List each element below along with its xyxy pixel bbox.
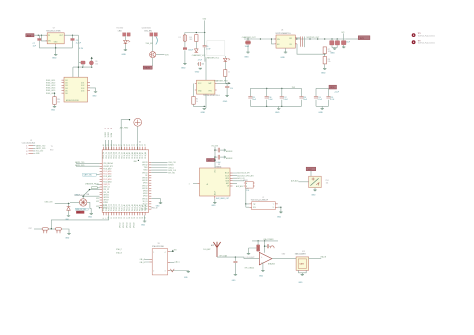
svg-text:SAW: SAW (299, 262, 304, 265)
wire right pin (217, 83, 228, 85)
svg-text:DO1: DO1 (81, 83, 84, 85)
svg-text:DI5: DI5 (65, 90, 68, 92)
svg-text:P1.01_D1: P1.01_D1 (106, 152, 108, 159)
svg-text:52: 52 (134, 144, 136, 146)
IC U4 NCP1529 (276, 30, 296, 48)
IC U8 codec body (200, 167, 231, 196)
fuse F1 (179, 35, 187, 42)
svg-text:P1.05_D5: P1.05_D5 (116, 204, 118, 211)
svg-text:GND: GND (51, 109, 56, 111)
svg-text:9: 9 (106, 218, 108, 219)
svg-text:GPIO2: GPIO2 (143, 196, 148, 198)
junction (55, 47, 56, 48)
module frame (207, 41, 225, 56)
svg-text:UART1_TXD: UART1_TXD (36, 144, 46, 147)
wire to gnd (90, 209, 91, 214)
wire rail (244, 38, 346, 40)
svg-text:8: 8 (103, 218, 105, 219)
wire join (332, 47, 337, 50)
net flag 3V3 (346, 36, 370, 40)
svg-text:1: 1 (26, 146, 27, 148)
junction (247, 38, 248, 39)
net flag VCC (329, 85, 337, 89)
svg-text:DI2: DI2 (65, 83, 68, 85)
svg-text:RXD: RXD (50, 150, 54, 152)
svg-text:R9: R9 (95, 61, 97, 63)
svg-text:R10: R10 (57, 99, 60, 101)
wires vdd pins up (106, 140, 112, 150)
net flag BCD (207, 159, 216, 163)
svg-text:DO4: DO4 (81, 90, 84, 92)
left pin stubs (100, 164, 103, 208)
svg-text:GND: GND (201, 112, 206, 114)
svg-text:UART1_RXD: UART1_RXD (36, 147, 46, 150)
svg-text:GPIO0: GPIO0 (143, 193, 148, 195)
resistor R5 (192, 84, 198, 105)
svg-text:GPIO16: GPIO16 (142, 188, 148, 190)
svg-text:GND: GND (277, 216, 282, 218)
svg-text:56: 56 (145, 144, 147, 146)
svg-text:0.1uF: 0.1uF (284, 99, 288, 101)
junction (51, 228, 52, 229)
svg-text:IO21: IO21 (96, 201, 99, 203)
svg-text:105k: 105k (328, 51, 332, 53)
jack pins left (246, 204, 252, 207)
svg-text:RV1: RV1 (326, 180, 329, 182)
capacitor C13 (335, 39, 339, 48)
net flag VBUS (26, 34, 34, 38)
ESD diode D5 (70, 196, 90, 209)
svg-text:14: 14 (119, 217, 121, 219)
svg-text:TP2: TP2 (418, 40, 421, 42)
svg-text:U4: U4 (281, 30, 283, 32)
regulator U7 MIC5205 body (46, 28, 64, 44)
wire EN tie (272, 39, 275, 44)
svg-text:RST: RST (29, 228, 32, 230)
svg-text:AUX_MCLK_GPI: AUX_MCLK_GPI (237, 172, 250, 175)
svg-text:17: 17 (126, 217, 128, 219)
svg-text:XTAL_P: XTAL_P (116, 248, 122, 251)
wire VIN to U7 (34, 34, 47, 36)
pin numbers inside (153, 252, 165, 272)
capacitor C17 (280, 88, 288, 106)
svg-text:GND: GND (122, 54, 127, 56)
svg-text:46: 46 (119, 144, 121, 146)
svg-text:1k: 1k (228, 72, 230, 74)
svg-text:XTAL-3225 SMD: XTAL-3225 SMD (152, 245, 165, 248)
junction (260, 38, 261, 39)
svg-text:RGB1_LED2: RGB1_LED2 (46, 82, 55, 84)
svg-text:CHARGER_PRO: CHARGER_PRO (214, 80, 228, 83)
wire rf (217, 257, 259, 259)
svg-text:RGB1_LED3: RGB1_LED3 (46, 85, 55, 87)
svg-text:VCC: VCC (208, 160, 213, 162)
svg-text:CAL_B: CAL_B (140, 261, 145, 264)
junction (227, 83, 228, 84)
junction (317, 38, 318, 39)
svg-text:TS-3.5mm-jack-SMD-5P: TS-3.5mm-jack-SMD-5P (251, 200, 268, 202)
junction (82, 67, 83, 68)
svg-text:15: 15 (121, 217, 123, 219)
wire to gate (152, 36, 154, 51)
svg-text:PRTR5V0U2X: PRTR5V0U2X (75, 195, 86, 197)
junction (91, 67, 92, 68)
wire bottom rail (250, 105, 301, 107)
right pin stubs (149, 162, 152, 209)
svg-text:47: 47 (121, 144, 123, 146)
svg-text:CHARGER_PROG: CHARGER_PROG (85, 182, 99, 185)
ground (181, 63, 187, 69)
svg-text:GND: GND (36, 153, 40, 155)
capacitor C22 (214, 148, 232, 153)
junction (266, 106, 267, 107)
wire U7 out (64, 34, 78, 36)
svg-text:U1: U1 (139, 142, 141, 144)
svg-text:VDD33: VDD33 (105, 132, 107, 137)
svg-text:32K_XP: 32K_XP (103, 189, 109, 191)
capacitor C7 (33, 35, 42, 48)
wire (124, 44, 126, 50)
pin stubs (274, 38, 297, 44)
svg-text:TIP: TIP (253, 204, 255, 206)
junction (78, 67, 79, 68)
switch arc (156, 36, 158, 44)
svg-text:GPIO32: GPIO32 (130, 222, 132, 228)
svg-text:1k: 1k (196, 101, 198, 103)
svg-text:P1.02_D2: P1.02_D2 (108, 204, 110, 211)
supply arrow VCC (91, 57, 93, 61)
svg-text:UART_SEL: UART_SEL (84, 174, 92, 177)
svg-text:GND: GND (280, 57, 285, 59)
ground (280, 52, 287, 59)
junction (337, 38, 338, 39)
ground (88, 213, 93, 218)
svg-text:C19: C19 (318, 97, 321, 99)
svg-text:C16: C16 (269, 97, 272, 99)
svg-text:41: 41 (106, 144, 108, 146)
svg-text:AUX_ADC: AUX_ADC (291, 179, 299, 182)
svg-text:Conn_01x04_Male: Conn_01x04_Male (22, 143, 35, 145)
jack J2 title (251, 197, 268, 202)
svg-text:T: T (273, 204, 274, 206)
wire (324, 64, 326, 68)
svg-text:RF_COAX42: RF_COAX42 (245, 266, 254, 269)
svg-text:Q2 AO3401: Q2 AO3401 (142, 27, 151, 30)
svg-text:BGA2803: BGA2803 (268, 262, 275, 265)
svg-text:2.4G_ANT: 2.4G_ANT (203, 248, 211, 251)
svg-text:AGND33: AGND33 (226, 157, 232, 160)
top pin numbers (103, 144, 147, 146)
wire (55, 202, 70, 204)
ground (211, 202, 216, 207)
svg-text:P1.03_D3: P1.03_D3 (111, 152, 113, 159)
svg-text:CHG_D: CHG_D (168, 167, 174, 169)
svg-text:GPIO22: GPIO22 (142, 165, 148, 167)
svg-text:LRCK: LRCK (225, 178, 229, 180)
svg-text:VBUS: VBUS (144, 68, 150, 70)
wire charger vcc down (205, 59, 207, 81)
svg-text:F1: F1 (179, 37, 181, 39)
wire 5V0 vertical (204, 21, 206, 33)
svg-text:SDIN: SDIN (225, 181, 229, 183)
wires to labels (33, 146, 35, 154)
wire vertical to opamp (264, 241, 266, 253)
svg-text:DO3: DO3 (81, 88, 84, 90)
svg-text:FB: FB (290, 44, 292, 46)
wire antenna L (121, 119, 130, 150)
svg-text:DI1: DI1 (65, 80, 68, 82)
resistor R11 (123, 33, 131, 36)
svg-text:SWDIO: SWDIO (168, 165, 174, 167)
capacitor C18 (299, 88, 306, 106)
svg-text:GPIO_19: GPIO_19 (151, 208, 158, 210)
svg-text:GND: GND (321, 72, 326, 74)
net labels (36, 144, 46, 155)
svg-text:48: 48 (124, 144, 126, 146)
svg-text:SPI_TXD: SPI_TXD (168, 173, 175, 175)
ground (330, 49, 336, 55)
wire 3.3V rail down (77, 35, 79, 77)
svg-text:VDET_12: VDET_12 (103, 187, 110, 189)
connector J1 pins (26, 146, 33, 156)
teal label box USB (75, 208, 88, 211)
svg-text:10uF: 10uF (346, 42, 350, 44)
connector J1 title (22, 140, 35, 144)
svg-text:RGB1_LED5: RGB1_LED5 (46, 90, 55, 92)
junction (296, 38, 297, 39)
svg-text:P1.03_D3: P1.03_D3 (111, 204, 113, 211)
svg-text:U8: U8 (218, 164, 220, 166)
svg-text:P1.01_D1: P1.01_D1 (106, 204, 108, 211)
svg-text:DI6: DI6 (65, 93, 68, 95)
svg-text:3.3V: 3.3V (79, 48, 84, 50)
button SW2 (55, 228, 61, 233)
right wires SWD (151, 162, 177, 174)
svg-text:44: 44 (113, 144, 115, 146)
svg-text:10: 10 (108, 217, 110, 219)
svg-text:VDDA: VDDA (110, 132, 113, 137)
title U13 (295, 251, 306, 256)
junction (309, 38, 310, 39)
left wires UART (75, 161, 100, 167)
wire gpio (83, 189, 99, 196)
svg-text:10k: 10k (57, 101, 60, 103)
trimmer RV1 (309, 176, 322, 187)
svg-text:C20: C20 (330, 97, 333, 99)
svg-text:GND: GND (318, 112, 323, 114)
svg-text:11: 11 (111, 217, 113, 219)
svg-text:21: 21 (137, 217, 139, 219)
svg-text:CAL_C: CAL_C (175, 261, 181, 264)
right labels (326, 180, 329, 185)
wire (310, 171, 312, 177)
ground GND1 (52, 55, 57, 60)
svg-text:GND: GND (223, 101, 228, 103)
svg-text:GND: GND (259, 276, 264, 278)
SAW U13 body (296, 257, 309, 270)
svg-text:TP1: TP1 (418, 33, 421, 35)
resistor R7 (323, 47, 331, 54)
svg-text:VCC: VCC (330, 87, 335, 89)
wire arrow (228, 82, 230, 84)
labels near MCU (116, 248, 123, 254)
wire gnd stub (285, 48, 287, 52)
svg-text:24: 24 (145, 217, 147, 219)
net flag VBUS2 (143, 66, 152, 70)
wire (195, 41, 197, 49)
svg-text:MCLK: MCLK (225, 173, 229, 175)
wire (184, 33, 186, 35)
svg-text:SD_D1: SD_D1 (143, 201, 148, 203)
right wire (309, 258, 322, 260)
svg-text:42: 42 (108, 144, 110, 146)
svg-text:4: 4 (26, 153, 27, 155)
svg-text:S: S (273, 207, 274, 209)
svg-text:5V0: 5V0 (203, 19, 207, 21)
svg-text:UART0_RXD: UART0_RXD (75, 164, 85, 167)
svg-text:GPIO33: GPIO33 (133, 222, 135, 228)
svg-text:C17: C17 (284, 97, 287, 99)
svg-text:GPIO26: GPIO26 (103, 197, 109, 199)
svg-text:SN74: SN74 (243, 180, 247, 182)
svg-text:GPIO5: GPIO5 (143, 183, 148, 185)
svg-text:P1.07_D7: P1.07_D7 (121, 152, 123, 159)
resistor R8 (323, 57, 330, 64)
svg-text:GND: GND (211, 205, 216, 207)
ground (65, 234, 71, 240)
wire output (272, 258, 296, 260)
svg-text:16: 16 (124, 217, 126, 219)
bottom loops (299, 270, 307, 274)
svg-text:GPIO13: GPIO13 (123, 222, 125, 228)
ground (298, 274, 304, 284)
opamp gnd (259, 262, 265, 277)
svg-text:SLV: SLV (253, 207, 256, 209)
svg-text:53: 53 (137, 144, 139, 146)
junction (281, 88, 282, 89)
svg-text:100uF: 100uF (188, 50, 194, 52)
pin labels left (46, 80, 55, 95)
crystal X1 body (152, 249, 168, 275)
svg-text:CE: CE (227, 186, 229, 188)
usb wires (75, 194, 100, 196)
svg-text:1: 1 (189, 183, 190, 185)
svg-text:VCC_5V0: VCC_5V0 (36, 151, 43, 153)
svg-text:GND: GND (195, 72, 200, 74)
left wire (291, 179, 309, 182)
svg-text:SWD_CLK: SWD_CLK (168, 170, 177, 172)
svg-text:51: 51 (132, 144, 134, 146)
wire bottom (194, 94, 207, 108)
svg-text:RGB1_LED4: RGB1_LED4 (46, 88, 55, 90)
right pin 3V3 (168, 250, 177, 252)
LED CHRG (224, 56, 231, 62)
pin stubs right (88, 83, 91, 91)
svg-text:TX: TX (51, 146, 54, 148)
ground (223, 96, 229, 103)
svg-text:RXD0: RXD0 (143, 170, 147, 172)
MCU U1 body (102, 150, 149, 213)
capacitor C23 (214, 155, 232, 160)
junction (258, 240, 259, 241)
right pins (230, 173, 233, 186)
svg-text:C15: C15 (252, 97, 255, 99)
svg-text:J2: J2 (262, 197, 264, 199)
svg-text:3V3: 3V3 (341, 32, 344, 34)
junction (324, 54, 325, 55)
svg-text:5V0_EN: 5V0_EN (144, 30, 152, 32)
svg-text:AUX_BCK_GPIO_ATO: AUX_BCK_GPIO_ATO (237, 174, 254, 177)
junction (204, 32, 205, 33)
wire bead left (249, 248, 257, 253)
wire (124, 36, 126, 40)
junction (72, 35, 73, 36)
wire (184, 41, 186, 47)
svg-text:1uF: 1uF (33, 45, 37, 47)
top vcc wire (211, 145, 218, 168)
svg-text:P1.00_D0: P1.00_D0 (103, 152, 105, 159)
capacitor C9 (197, 57, 205, 67)
svg-text:CHARGER_VCC: CHARGER_VCC (192, 54, 206, 57)
ground (195, 68, 202, 73)
svg-text:GND: GND (275, 112, 280, 114)
svg-text:GPIO25: GPIO25 (103, 194, 109, 196)
wire (49, 228, 56, 230)
svg-text:GPIO14: GPIO14 (126, 222, 128, 228)
left pins (140, 258, 153, 264)
svg-text:GPIO21: GPIO21 (142, 172, 148, 174)
cap and coil (265, 244, 275, 248)
inner pin names left (103, 162, 114, 209)
wire ctrl rail (73, 67, 92, 77)
wire rf down (137, 126, 139, 150)
junction (264, 246, 265, 247)
junction at pin (99, 207, 100, 208)
red flag USB (76, 211, 84, 214)
capacitor C16 (265, 88, 273, 106)
svg-text:X1: X1 (158, 243, 160, 245)
svg-text:NCP1529_OUT: NCP1529_OUT (307, 37, 320, 39)
svg-text:55: 55 (142, 144, 144, 146)
junction (324, 38, 325, 39)
svg-text:U.FL-R-SMT: U.FL-R-SMT (245, 257, 254, 259)
testpoint TP1 (412, 33, 436, 37)
resistor R6 (224, 70, 230, 77)
svg-text:2.2uF: 2.2uF (76, 42, 82, 44)
svg-text:R11 330: R11 330 (117, 28, 124, 30)
svg-text:19: 19 (132, 217, 134, 219)
diode D3 (195, 49, 199, 53)
svg-text:AUX_ADC: AUX_ADC (236, 185, 244, 188)
jack pins right (275, 204, 281, 212)
wire source down (152, 58, 154, 66)
right wires + labels (233, 172, 255, 188)
svg-text:10k: 10k (326, 183, 329, 185)
svg-text:CHIP_PU: CHIP_PU (103, 184, 110, 186)
wire gnd stub (55, 45, 57, 54)
wire top (316, 87, 329, 89)
capacitor C12 (330, 39, 334, 48)
svg-text:TXD0: TXD0 (144, 167, 148, 169)
svg-text:XTAL_N: XTAL_N (116, 251, 123, 254)
svg-text:49: 49 (126, 144, 128, 146)
svg-text:54: 54 (139, 144, 141, 146)
svg-text:0.1uF: 0.1uF (318, 99, 322, 101)
LED D2 (124, 40, 131, 44)
ferrite bead FB1 (257, 241, 260, 251)
svg-text:GND: GND (311, 194, 316, 196)
capacitor C15 (248, 88, 256, 106)
